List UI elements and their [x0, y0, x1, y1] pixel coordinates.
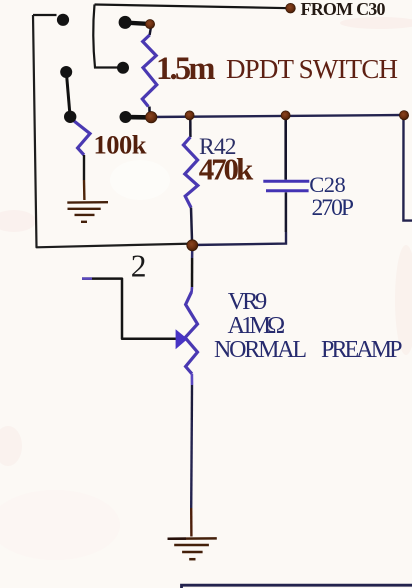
svg-text:100k: 100k — [94, 129, 147, 159]
svg-text:NORMAL: NORMAL — [214, 337, 307, 363]
svg-text:470k: 470k — [199, 151, 254, 186]
svg-text:A1MΩ: A1MΩ — [228, 312, 286, 339]
svg-text:FROM C30: FROM C30 — [301, 0, 386, 19]
svg-text:VR9: VR9 — [228, 288, 267, 315]
svg-text:PREAMP: PREAMP — [321, 337, 403, 363]
svg-text:270P: 270P — [312, 195, 355, 221]
svg-text:1.5m: 1.5m — [156, 51, 216, 87]
svg-text:2: 2 — [131, 248, 147, 283]
svg-text:C28: C28 — [309, 172, 346, 197]
svg-text:DPDT SWITCH: DPDT SWITCH — [226, 54, 398, 84]
